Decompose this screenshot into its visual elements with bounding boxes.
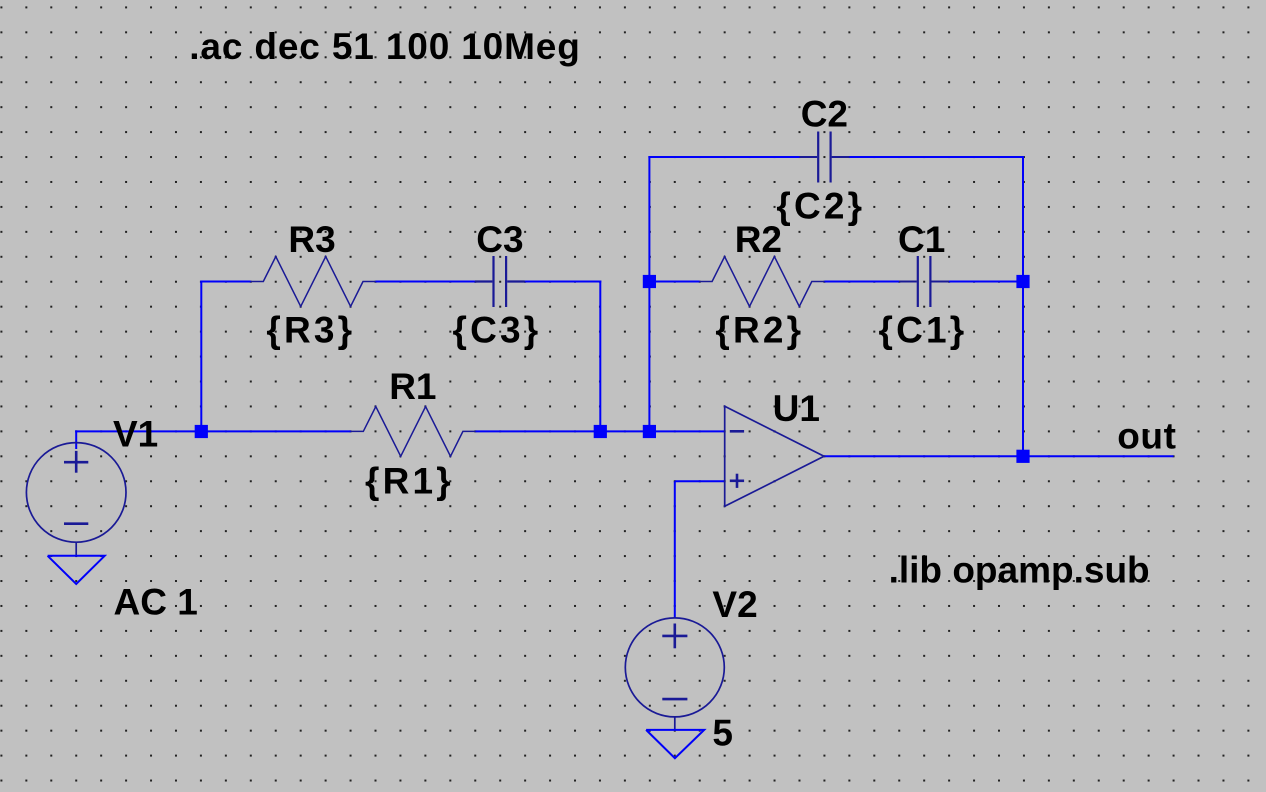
C2 lead right <box>832 156 850 158</box>
wire corner down to main row <box>599 281 601 432</box>
svg-text:R2: R2 <box>735 219 782 260</box>
wire to R3 <box>200 281 251 283</box>
wire R2 to C1 <box>824 281 899 283</box>
wire feedback right vertical <box>1022 156 1024 456</box>
wire node B to R2 <box>649 281 699 283</box>
wire C1 to node C <box>949 281 1023 283</box>
svg-text:R3: R3 <box>288 219 335 260</box>
voltage source V1 <box>26 443 126 543</box>
ground under V2 <box>674 717 676 730</box>
ground under V1 <box>75 542 77 556</box>
svg-text:R1: R1 <box>389 366 436 407</box>
wire R3 to C3 <box>376 281 475 283</box>
svg-text:.ac dec 51 100 10Meg: .ac dec 51 100 10Meg <box>189 26 580 67</box>
wire node A to R1 <box>201 430 350 432</box>
junction node at C3 branch <box>594 425 607 438</box>
wire V1 top to node A <box>75 430 77 449</box>
resistor R2 <box>700 257 825 307</box>
wire plus input down to V2 <box>674 481 676 618</box>
svg-text:{R2}: {R2} <box>715 310 804 351</box>
svg-text:C2: C2 <box>801 94 848 135</box>
resistor R1 <box>351 407 476 457</box>
wire opamp plus input <box>675 480 725 482</box>
wire C2 row left <box>648 156 799 158</box>
op-amp U1 <box>725 406 824 506</box>
svg-text:U1: U1 <box>773 388 820 429</box>
junction node A <box>195 425 208 438</box>
svg-text:5: 5 <box>712 713 733 754</box>
junction node output <box>1016 450 1029 463</box>
svg-text:out: out <box>1117 416 1176 457</box>
capacitor C1 <box>918 256 931 307</box>
svg-text:C1: C1 <box>898 219 945 260</box>
svg-text:AC 1: AC 1 <box>114 581 198 622</box>
svg-text:{R1}: {R1} <box>365 460 454 501</box>
svg-text:V2: V2 <box>712 584 757 625</box>
svg-text:C3: C3 <box>476 219 523 260</box>
C2 lead left <box>800 156 818 158</box>
wire opamp output <box>824 455 1174 457</box>
svg-text:{C2}: {C2} <box>776 185 865 226</box>
capacitor C3 <box>475 256 525 307</box>
wire C3 to corner <box>525 281 602 283</box>
wire C2 row right <box>849 156 1024 158</box>
wire node A up <box>200 281 202 433</box>
voltage source V2 <box>625 618 724 717</box>
junction node B <box>643 275 656 288</box>
C1 lead left <box>899 281 917 283</box>
svg-text:{C1}: {C1} <box>879 310 968 351</box>
svg-text:{R3}: {R3} <box>266 310 355 351</box>
svg-text:{C3}: {C3} <box>453 310 542 351</box>
junction node C <box>1016 275 1029 288</box>
wire R1 to opamp inverting input <box>475 430 724 432</box>
capacitor C2 <box>818 132 830 183</box>
C1 lead right <box>931 281 949 283</box>
junction node inverting input <box>643 425 656 438</box>
wire feedback left vertical <box>648 156 650 431</box>
svg-text:V1: V1 <box>113 413 158 454</box>
svg-text:.lib opamp.sub: .lib opamp.sub <box>889 550 1150 591</box>
resistor R3 <box>251 257 376 307</box>
